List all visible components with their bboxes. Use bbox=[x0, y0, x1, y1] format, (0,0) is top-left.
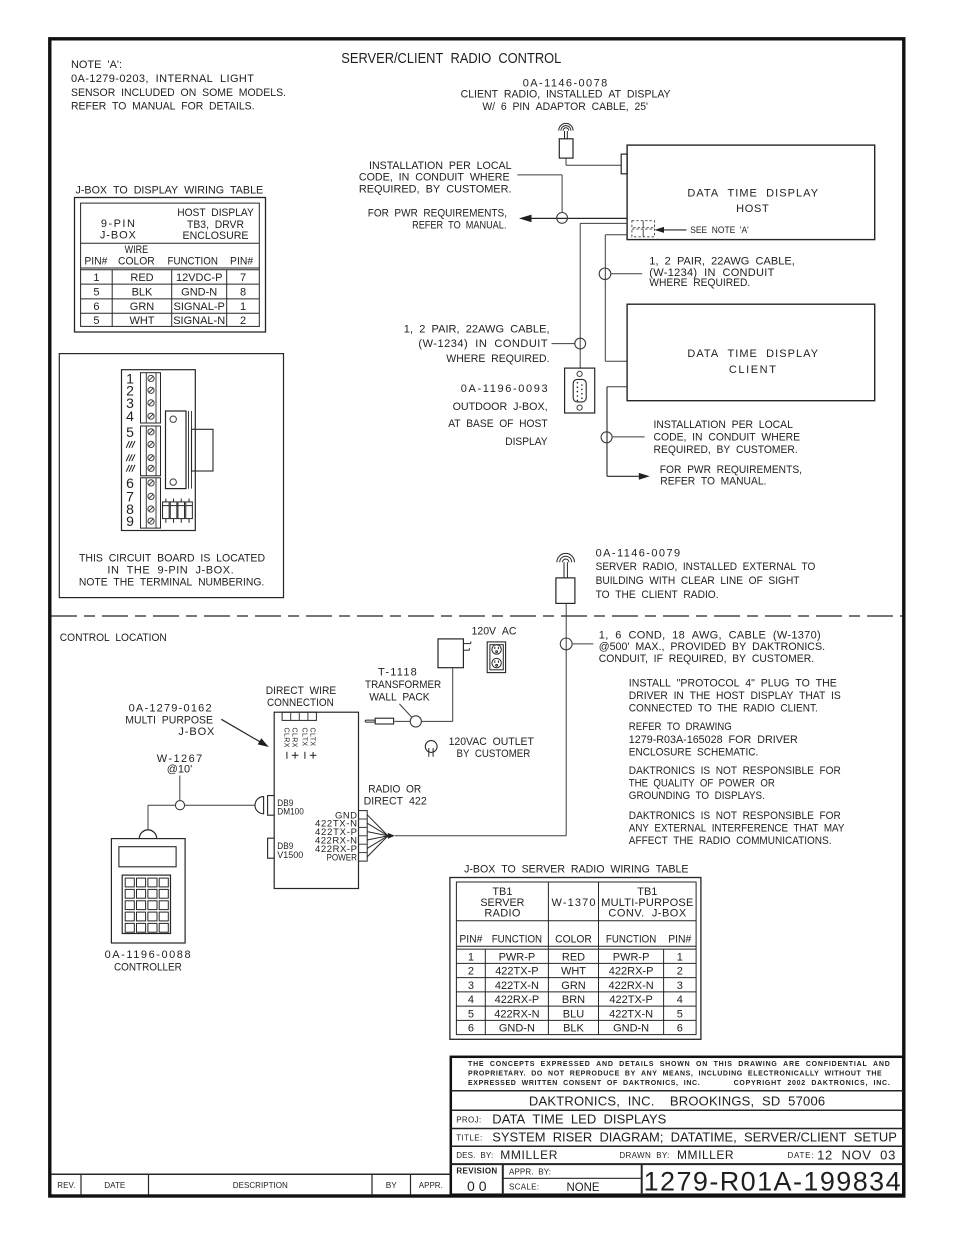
table1 row divider 2 bbox=[81, 298, 260, 300]
jbox right terminal divider 1 bbox=[359, 818, 368, 820]
svg-text:INSTALLATION PER LOCAL: INSTALLATION PER LOCAL bbox=[369, 160, 512, 172]
title block number divider bbox=[641, 1164, 643, 1195]
client display enclosure bbox=[627, 304, 875, 401]
svg-text:3: 3 bbox=[677, 980, 683, 992]
svg-text:5: 5 bbox=[468, 1008, 474, 1020]
dashed separator line bbox=[51, 615, 903, 617]
fanout wire 4 bbox=[367, 836, 388, 840]
svg-text:422RX-P: 422RX-P bbox=[609, 966, 654, 978]
svg-text:INSTALL "PROTOCOL 4" PLUG: INSTALL "PROTOCOL 4" PLUG TO THE bbox=[629, 677, 837, 689]
terminal block group 3 inner line bbox=[145, 478, 147, 528]
svg-text:MMILLER: MMILLER bbox=[500, 1148, 557, 1162]
table2 data col divider 2 bbox=[663, 949, 665, 1035]
svg-text:PROJ:: PROJ: bbox=[456, 1116, 481, 1125]
svg-text:REFER TO MANUAL.: REFER TO MANUAL. bbox=[660, 476, 766, 488]
svg-text:4: 4 bbox=[126, 408, 134, 424]
svg-text:SCALE:: SCALE: bbox=[509, 1182, 539, 1191]
terminal block group 2 right line bbox=[155, 426, 157, 476]
svg-text:1: 1 bbox=[93, 272, 99, 284]
terminal screw 6 slot bbox=[149, 442, 153, 446]
client radio antenna arc r5.0 bbox=[561, 126, 571, 131]
svg-text:BLK: BLK bbox=[132, 287, 153, 299]
table1 double line lower bbox=[81, 269, 260, 271]
fanout wire 5 bbox=[367, 836, 388, 849]
svg-text:0A-1279-0203, INTERNAL LIGHT: 0A-1279-0203, INTERNAL LIGHT bbox=[71, 73, 254, 85]
host display enclosure bbox=[627, 145, 875, 240]
axial component 4 bbox=[186, 499, 193, 523]
svg-text:422RX-P: 422RX-P bbox=[495, 994, 540, 1006]
outlet plug glyph circle bbox=[425, 741, 437, 753]
svg-text:7: 7 bbox=[240, 272, 246, 284]
axial component 1 bbox=[163, 499, 170, 523]
circuit board panel frame bbox=[59, 354, 283, 598]
junction controller cable bbox=[175, 801, 184, 810]
svg-text:SIGNAL-P: SIGNAL-P bbox=[174, 301, 225, 313]
svg-text:TRANSFORMER: TRANSFORMER bbox=[365, 679, 441, 691]
table2 outer frame bbox=[450, 878, 701, 1040]
terminal block group 2 inner line bbox=[145, 426, 147, 476]
client radio body bbox=[559, 139, 573, 158]
svg-text:COLOR: COLOR bbox=[118, 255, 155, 267]
table2 group divider left bbox=[547, 882, 549, 1035]
svg-text:SIGNAL-N: SIGNAL-N bbox=[173, 315, 225, 327]
svg-text:5: 5 bbox=[93, 287, 99, 299]
table1 column divider 3 bbox=[226, 270, 228, 327]
svg-text:BLU: BLU bbox=[563, 1008, 584, 1020]
svg-text:DRIVER IN THE HOST DISPLAY: DRIVER IN THE HOST DISPLAY THAT IS bbox=[629, 690, 841, 702]
jbox callout arrowhead bbox=[258, 738, 269, 747]
terminal screw 5 slot bbox=[149, 430, 153, 434]
terminal screw 8 slot bbox=[149, 466, 153, 470]
svg-text:CODE, IN CONDUIT WHERE: CODE, IN CONDUIT WHERE bbox=[654, 432, 801, 444]
table2 row divider 1 bbox=[456, 962, 696, 964]
revision row divider 4 bbox=[410, 1174, 412, 1195]
wire2 vertical bbox=[604, 235, 606, 361]
svg-text:0A-1146-0079: 0A-1146-0079 bbox=[596, 548, 681, 560]
terminal block group 1 inner line bbox=[145, 373, 147, 423]
junction conduit host bbox=[557, 213, 568, 224]
svg-text:FUNCTION: FUNCTION bbox=[168, 255, 218, 267]
svg-text:OUTDOOR J-BOX,: OUTDOOR J-BOX, bbox=[453, 401, 548, 413]
svg-text:ANY EXTERNAL INTERFERENCE T: ANY EXTERNAL INTERFERENCE THAT MAY bbox=[629, 823, 845, 835]
svg-text:4: 4 bbox=[677, 994, 683, 1006]
junction conduit wire1 bbox=[575, 338, 586, 349]
table2 row divider 2 bbox=[456, 977, 696, 979]
title block line 2 bbox=[451, 1109, 904, 1111]
server radio antenna arc r3.2 bbox=[563, 559, 569, 562]
svg-text:THIS CIRCUIT BOARD IS LOCA: THIS CIRCUIT BOARD IS LOCATED bbox=[79, 553, 265, 565]
wire fanout to radio bbox=[395, 835, 566, 837]
controller dome bbox=[139, 830, 156, 839]
DM100 plug semicircle bbox=[255, 797, 264, 814]
svg-text:DAKTRONICS IS NOT RESPONSIB: DAKTRONICS IS NOT RESPONSIBLE FOR bbox=[629, 765, 841, 777]
outdoor J-box screw top bbox=[577, 371, 582, 376]
terminal screw 4 bbox=[148, 413, 154, 419]
svg-text:DIRECT 422: DIRECT 422 bbox=[364, 795, 427, 807]
svg-text:TITLE:: TITLE: bbox=[456, 1133, 482, 1142]
svg-text:1: 1 bbox=[240, 301, 246, 313]
see note arrowhead bbox=[655, 227, 665, 233]
outdoor J-box DB9 pins bbox=[577, 382, 583, 401]
PCB DB9 mounting hole top bbox=[170, 416, 176, 422]
title block scale divider bbox=[503, 1177, 642, 1179]
svg-text:RED: RED bbox=[562, 951, 585, 963]
svg-text:NOTE THE TERMINAL NUMBERING: NOTE THE TERMINAL NUMBERING. bbox=[79, 577, 264, 589]
svg-text:REFER TO DRAWING: REFER TO DRAWING bbox=[629, 721, 732, 733]
svg-text:9: 9 bbox=[126, 513, 134, 529]
terminal screw 10 bbox=[148, 493, 154, 499]
svg-text:5: 5 bbox=[126, 424, 134, 440]
terminal screw 4 slot bbox=[149, 414, 153, 418]
controller body bbox=[111, 839, 185, 943]
wire transformer down bbox=[452, 668, 454, 722]
svg-text:REFER TO MANUAL FOR DETAIL: REFER TO MANUAL FOR DETAILS. bbox=[71, 101, 255, 113]
table2 group divider right bbox=[598, 882, 600, 1035]
svg-text:REV.: REV. bbox=[57, 1180, 75, 1190]
jbox top terminal divider 3 bbox=[307, 712, 309, 720]
svg-text:DISPLAY: DISPLAY bbox=[505, 436, 548, 448]
svg-text:GRN: GRN bbox=[130, 301, 155, 313]
fanout wire 1 bbox=[367, 815, 388, 836]
terminal screw 9 bbox=[148, 480, 154, 486]
svg-text:BUILDING WITH CLEAR LINE O: BUILDING WITH CLEAR LINE OF SIGHT bbox=[596, 575, 800, 587]
svg-text:TO THE CLIENT RADIO.: TO THE CLIENT RADIO. bbox=[596, 589, 719, 601]
wire2 client stub bbox=[605, 360, 627, 362]
terminal screw 3 bbox=[148, 400, 154, 406]
table1 row divider 1 bbox=[81, 283, 260, 285]
server radio antenna arc r6.0 bbox=[560, 556, 572, 562]
svg-text:422RX-N: 422RX-N bbox=[494, 1008, 539, 1020]
fanout arrowhead bbox=[388, 833, 395, 839]
svg-text:8: 8 bbox=[240, 287, 246, 299]
svg-text:COPYRIGHT 2002 DAKTRONICS,: COPYRIGHT 2002 DAKTRONICS, INC. bbox=[734, 1080, 890, 1087]
jbox right terminal divider 5 bbox=[359, 852, 368, 854]
svg-text:SENSOR INCLUDED ON SOME MO: SENSOR INCLUDED ON SOME MODELS. bbox=[71, 87, 286, 99]
terminal block group 1 bbox=[141, 373, 161, 423]
svg-text:CLIENT RADIO, INSTALLED AT: CLIENT RADIO, INSTALLED AT DISPLAY bbox=[461, 88, 672, 100]
client radio antenna arc r7.2 bbox=[559, 123, 573, 130]
svg-text:RED: RED bbox=[130, 272, 153, 284]
svg-text:DRAWN BY:: DRAWN BY: bbox=[619, 1151, 669, 1160]
client radio mast left bbox=[564, 131, 566, 139]
svg-text:REQUIRED, BY CUSTOMER.: REQUIRED, BY CUSTOMER. bbox=[654, 444, 798, 456]
wire1 host stub bbox=[580, 222, 627, 224]
svg-text:4: 4 bbox=[468, 994, 474, 1006]
jbox right terminal divider 3 bbox=[359, 835, 368, 837]
svg-text:GND-N: GND-N bbox=[181, 287, 217, 299]
terminal block group 3 right line bbox=[155, 478, 157, 528]
title block line 1 bbox=[451, 1090, 904, 1092]
controller keypad frame bbox=[122, 875, 170, 933]
svg-text:FOR PWR REQUIREMENTS,: FOR PWR REQUIREMENTS, bbox=[660, 464, 802, 476]
svg-text:MMILLER: MMILLER bbox=[677, 1148, 734, 1162]
svg-text:1, 6 COND, 18 AWG, CABLE: 1, 6 COND, 18 AWG, CABLE (W-1370) bbox=[599, 629, 821, 641]
svg-text:WIRE: WIRE bbox=[125, 244, 149, 256]
title block line 4 bbox=[451, 1145, 904, 1147]
table2 header divider bbox=[456, 920, 696, 922]
wire controller horizontal bbox=[148, 804, 175, 806]
jbox right terminal strip bbox=[359, 811, 368, 862]
svg-text:CLIENT: CLIENT bbox=[729, 364, 776, 376]
svg-text:GND-N: GND-N bbox=[499, 1023, 535, 1035]
svg-text:DIRECT WIRE: DIRECT WIRE bbox=[266, 685, 336, 697]
svg-text:1: 1 bbox=[468, 951, 474, 963]
terminal screw 11 bbox=[148, 506, 154, 512]
svg-text:6: 6 bbox=[93, 301, 99, 313]
table2 double line lower bbox=[456, 948, 696, 950]
wire client radio down bbox=[565, 158, 567, 165]
light sensor icon row2 bbox=[632, 229, 655, 237]
terminal block group 2 bbox=[141, 426, 161, 476]
svg-text:120V AC: 120V AC bbox=[472, 625, 517, 637]
chassis ground symbol 2 bbox=[126, 454, 135, 461]
svg-text:BY: BY bbox=[386, 1180, 397, 1190]
host display left connector bbox=[621, 154, 627, 174]
svg-text:DM100: DM100 bbox=[277, 807, 304, 818]
svg-text:CONDUIT, IF REQUIRED, BY C: CONDUIT, IF REQUIRED, BY CUSTOMER. bbox=[599, 653, 814, 665]
terminal screw 2 slot bbox=[149, 388, 153, 392]
svg-text:EXPRESSED WRITTEN CONSENT O: EXPRESSED WRITTEN CONSENT OF DAKTRONICS,… bbox=[468, 1080, 700, 1087]
client pwr arrowhead bbox=[639, 473, 650, 480]
host install callout line v bbox=[561, 175, 563, 213]
title block revision divider bbox=[502, 1164, 504, 1195]
terminal screw 12 bbox=[148, 518, 154, 524]
svg-text:DATA TIME DISPLAY: DATA TIME DISPLAY bbox=[687, 348, 818, 360]
svg-text:PIN#: PIN# bbox=[84, 255, 108, 267]
terminal screw 1 bbox=[148, 375, 154, 381]
wire1 callout tick bbox=[552, 343, 575, 345]
transformer prong1 tick bbox=[470, 641, 472, 643]
svg-text:422TX-N: 422TX-N bbox=[609, 1008, 653, 1020]
svg-text:APPR.: APPR. bbox=[419, 1180, 443, 1190]
server radio mast right bbox=[566, 562, 568, 578]
svg-text:POWER: POWER bbox=[327, 852, 358, 863]
wire host pwr bbox=[532, 217, 628, 219]
svg-text:2: 2 bbox=[240, 315, 246, 327]
terminal screw 7 slot bbox=[149, 456, 153, 460]
svg-text:FUNCTION: FUNCTION bbox=[492, 934, 542, 946]
terminal screw 7 bbox=[148, 455, 154, 461]
svg-text:12VDC-P: 12VDC-P bbox=[176, 272, 222, 284]
svg-text:FUNCTION: FUNCTION bbox=[606, 934, 656, 946]
svg-text:NONE: NONE bbox=[567, 1180, 600, 1194]
svg-text:1279-R03A-165028 FOR DRIVER: 1279-R03A-165028 FOR DRIVER bbox=[629, 734, 798, 746]
title block frame bbox=[451, 1057, 904, 1195]
jbox top terminal divider 1 bbox=[290, 712, 292, 720]
outlet outer bbox=[487, 642, 505, 673]
transformer prong2 bbox=[463, 649, 469, 651]
svg-text:5: 5 bbox=[93, 315, 99, 327]
multi-purpose J-box body bbox=[274, 712, 358, 888]
svg-text:DATA TIME DISPLAY: DATA TIME DISPLAY bbox=[687, 188, 818, 200]
jbox top terminal divider 2 bbox=[298, 712, 300, 720]
outdoor J-box body bbox=[565, 368, 595, 413]
svg-text:WHERE REQUIRED.: WHERE REQUIRED. bbox=[446, 353, 549, 365]
svg-text:THE CONCEPTS EXPRESSED AND: THE CONCEPTS EXPRESSED AND DETAILS SHOWN… bbox=[468, 1061, 890, 1068]
svg-text:MULTI PURPOSE: MULTI PURPOSE bbox=[125, 715, 213, 727]
svg-text:SERVER/CLIENT RADIO CONTROL: SERVER/CLIENT RADIO CONTROL bbox=[341, 51, 561, 67]
svg-text:DES. BY:: DES. BY: bbox=[456, 1151, 493, 1160]
jbox right terminal divider 2 bbox=[359, 826, 368, 828]
svg-text:W/ 6 PIN ADAPTOR CABLE, 2: W/ 6 PIN ADAPTOR CABLE, 25' bbox=[482, 101, 648, 113]
wire client install vertical bbox=[606, 387, 608, 477]
svg-text:COLOR: COLOR bbox=[555, 934, 592, 946]
svg-text:12 NOV 03: 12 NOV 03 bbox=[817, 1148, 895, 1163]
terminal screw 10 slot bbox=[149, 494, 153, 498]
svg-text:J-BOX TO SERVER RADIO WIRI: J-BOX TO SERVER RADIO WIRING TABLE bbox=[464, 863, 688, 875]
wire1 vertical bbox=[579, 223, 581, 368]
terminal screw 12 slot bbox=[149, 519, 153, 523]
svg-text:SEE NOTE 'A': SEE NOTE 'A' bbox=[690, 225, 749, 236]
table1 outer frame bbox=[75, 198, 266, 333]
light sensor icon row1 bbox=[632, 221, 655, 228]
wire client radio to host bbox=[566, 164, 621, 166]
wire client install stub bbox=[607, 386, 627, 388]
svg-text:2: 2 bbox=[468, 966, 474, 978]
svg-text:120VAC OUTLET: 120VAC OUTLET bbox=[449, 736, 535, 748]
jbox right terminal divider 4 bbox=[359, 843, 368, 845]
transformer callout diagonal bbox=[399, 704, 411, 717]
svg-text:CLRX: CLRX bbox=[282, 728, 289, 748]
radio cable callout tick bbox=[572, 643, 593, 645]
controller display bbox=[119, 847, 176, 867]
svg-text:DESCRIPTION: DESCRIPTION bbox=[233, 1180, 288, 1190]
wire controller drop bbox=[147, 805, 149, 830]
axial component 3 bbox=[178, 499, 185, 523]
svg-text:WHT: WHT bbox=[561, 966, 586, 978]
table1 column divider 1 bbox=[111, 270, 113, 327]
DM100 bracket bbox=[268, 796, 275, 816]
svg-text:REQUIRED, BY CUSTOMER.: REQUIRED, BY CUSTOMER. bbox=[359, 183, 512, 195]
svg-text:SYSTEM RISER DIAGRAM; DATAT: SYSTEM RISER DIAGRAM; DATATIME, SERVER/C… bbox=[492, 1130, 897, 1145]
DC plug barrel bbox=[375, 718, 393, 724]
svg-text:422RX-N: 422RX-N bbox=[608, 980, 653, 992]
jbox polarity marks bbox=[287, 752, 317, 759]
outlet plug glyph prong1 bbox=[428, 748, 430, 757]
host pwr arrowhead bbox=[519, 215, 532, 223]
controller keypad keys bbox=[125, 878, 168, 932]
svg-text:HOST DISPLAY: HOST DISPLAY bbox=[177, 207, 254, 219]
revision row top line bbox=[51, 1173, 451, 1175]
PCB DB9 protruding shell bbox=[192, 429, 214, 471]
svg-text:DAKTRONICS, INC. BROOKINGS: DAKTRONICS, INC. BROOKINGS, SD 57006 bbox=[529, 1094, 825, 1109]
svg-text:6: 6 bbox=[468, 1023, 474, 1035]
client radio antenna arc r2.8 bbox=[563, 128, 569, 131]
svg-text:PROPRIETARY. DO NOT REPRODU: PROPRIETARY. DO NOT REPRODUCE BY ANY MEA… bbox=[468, 1071, 882, 1078]
DC plug pin bbox=[365, 720, 375, 722]
terminal screw 1 slot bbox=[149, 376, 153, 380]
PCB DB9 connector body bbox=[166, 411, 187, 489]
terminal screw 11 slot bbox=[149, 507, 153, 511]
svg-text:HOST: HOST bbox=[736, 203, 769, 215]
terminal screw 8 bbox=[148, 465, 154, 471]
table1 header divider bbox=[81, 242, 260, 244]
svg-text:1, 2 PAIR, 22AWG CABLE,: 1, 2 PAIR, 22AWG CABLE, bbox=[404, 323, 550, 335]
svg-text:@10': @10' bbox=[167, 763, 192, 775]
junction transformer plug bbox=[410, 716, 421, 727]
outlet receptacle 2 bbox=[492, 658, 501, 667]
table2 inner frame bbox=[456, 882, 696, 1035]
svg-text:422TX-P: 422TX-P bbox=[495, 966, 538, 978]
svg-text:J-BOX: J-BOX bbox=[178, 726, 215, 738]
svg-text:GROUNDING TO DISPLAYS.: GROUNDING TO DISPLAYS. bbox=[629, 790, 765, 802]
svg-text:ENCLOSURE: ENCLOSURE bbox=[183, 230, 249, 242]
svg-text:GRN: GRN bbox=[561, 980, 586, 992]
svg-text:WALL PACK: WALL PACK bbox=[369, 692, 430, 704]
svg-text:W-1370: W-1370 bbox=[552, 897, 596, 909]
svg-text:CONV. J-BOX: CONV. J-BOX bbox=[608, 908, 686, 920]
svg-text:T-1118: T-1118 bbox=[378, 667, 417, 679]
V1500 bracket bbox=[268, 838, 275, 858]
svg-text:APPR. BY:: APPR. BY: bbox=[509, 1167, 551, 1176]
svg-text:BY CUSTOMER: BY CUSTOMER bbox=[457, 748, 531, 760]
svg-text:CONNECTION: CONNECTION bbox=[267, 697, 334, 709]
wire2 host stub bbox=[605, 234, 627, 236]
svg-text:422TX-N: 422TX-N bbox=[495, 980, 539, 992]
terminal block group 3 bbox=[141, 478, 161, 528]
svg-text:V1500: V1500 bbox=[277, 850, 303, 861]
svg-text:PIN#: PIN# bbox=[668, 934, 692, 946]
wire transformer horizontal bbox=[421, 720, 452, 722]
svg-text:AT BASE OF HOST: AT BASE OF HOST bbox=[448, 418, 548, 430]
revision row divider 2 bbox=[148, 1174, 150, 1195]
svg-text:0A-1196-0088: 0A-1196-0088 bbox=[105, 949, 191, 961]
light sensor icon tick1 bbox=[642, 221, 644, 228]
svg-text:WHERE REQUIRED.: WHERE REQUIRED. bbox=[649, 277, 750, 289]
jbox top terminal strip bbox=[282, 712, 316, 720]
svg-text:PIN#: PIN# bbox=[459, 934, 483, 946]
svg-text:PIN#: PIN# bbox=[230, 255, 254, 267]
see note arrow line bbox=[664, 229, 687, 231]
PCB DB9 flange line 1 bbox=[188, 411, 190, 489]
svg-text:ENCLOSURE SCHEMATIC.: ENCLOSURE SCHEMATIC. bbox=[629, 746, 759, 758]
svg-text:NOTE 'A':: NOTE 'A': bbox=[71, 59, 122, 71]
svg-text:@500' MAX., PROVIDED BY DA: @500' MAX., PROVIDED BY DAKTRONICS. bbox=[599, 641, 825, 653]
table1 inner frame bbox=[81, 203, 260, 326]
table2 double line upper bbox=[456, 945, 696, 947]
svg-text:6: 6 bbox=[677, 1023, 683, 1035]
svg-text:DATA TIME LED DISPLAYS: DATA TIME LED DISPLAYS bbox=[492, 1111, 666, 1126]
outlet receptacle 1 bbox=[492, 645, 501, 654]
svg-text:IN THE 9-PIN J-BOX.: IN THE 9-PIN J-BOX. bbox=[107, 565, 233, 577]
wire W-1267 vertical bbox=[179, 776, 181, 801]
svg-text:BLK: BLK bbox=[563, 1023, 584, 1035]
outlet inner bbox=[490, 645, 503, 670]
outdoor J-box screw bottom bbox=[577, 405, 582, 410]
server radio body bbox=[556, 578, 575, 604]
revision row divider 1 bbox=[80, 1174, 82, 1195]
svg-text:BRN: BRN bbox=[562, 994, 585, 1006]
jbox callout diagonal bbox=[221, 719, 261, 742]
svg-text:AFFECT THE RADIO COMMUNICAT: AFFECT THE RADIO COMMUNICATIONS. bbox=[629, 835, 832, 847]
PCB DB9 mounting hole bottom bbox=[170, 479, 176, 485]
svg-text:J-BOX TO DISPLAY WIRING TA: J-BOX TO DISPLAY WIRING TABLE bbox=[76, 184, 264, 196]
junction conduit radio cable bbox=[560, 638, 572, 650]
svg-text:CLTX: CLTX bbox=[309, 728, 316, 747]
junction conduit wire2 bbox=[599, 268, 611, 280]
terminal screw 5 bbox=[148, 429, 154, 435]
svg-text:DAKTRONICS IS NOT RESPONSIB: DAKTRONICS IS NOT RESPONSIBLE FOR bbox=[629, 810, 841, 822]
svg-text:5: 5 bbox=[677, 1008, 683, 1020]
table2 row divider 4 bbox=[456, 1005, 696, 1007]
svg-text:THE QUALITY OF POWER OR: THE QUALITY OF POWER OR bbox=[629, 778, 775, 790]
svg-text:PWR-P: PWR-P bbox=[499, 951, 536, 963]
terminal screw 2 bbox=[148, 387, 154, 393]
svg-text:CLRX: CLRX bbox=[291, 728, 298, 748]
fanout wire 6 bbox=[367, 836, 388, 857]
svg-text:CLTX: CLTX bbox=[300, 728, 307, 747]
svg-text:RADIO: RADIO bbox=[484, 908, 520, 920]
